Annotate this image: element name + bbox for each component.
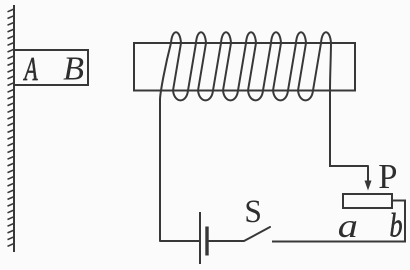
svg-text:b: b [389, 208, 402, 245]
svg-text:A: A [23, 51, 38, 88]
svg-text:B: B [63, 51, 84, 88]
svg-text:a: a [338, 208, 358, 246]
svg-text:S: S [244, 192, 262, 229]
svg-text:P: P [378, 158, 397, 196]
